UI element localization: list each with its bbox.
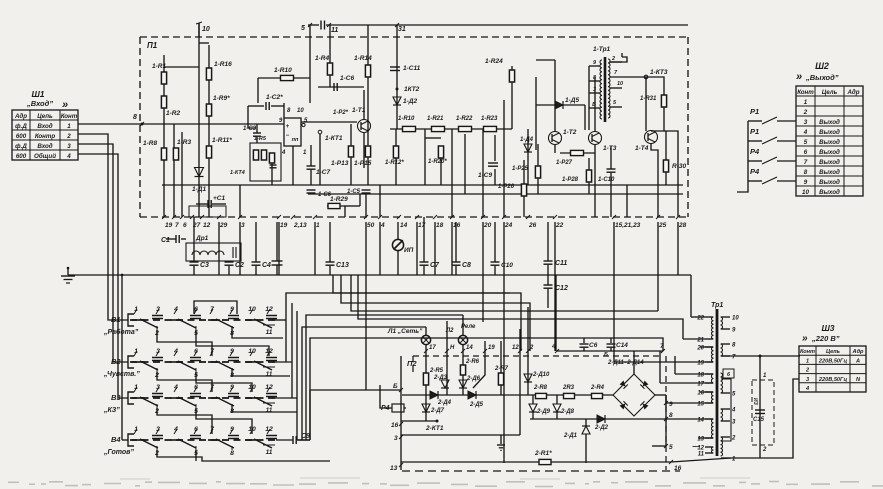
svg-text:13: 13: [697, 437, 704, 443]
svg-text:Вход: Вход: [37, 123, 52, 130]
svg-text:С14: С14: [616, 342, 628, 349]
svg-text:В2: В2: [111, 357, 121, 366]
svg-text:2: 2: [731, 436, 736, 442]
svg-text:С3: С3: [200, 262, 209, 269]
svg-text:15: 15: [697, 402, 704, 408]
svg-text:1-R21: 1-R21: [427, 116, 444, 122]
svg-text:6: 6: [183, 222, 187, 229]
svg-text:15,21,23: 15,21,23: [615, 222, 641, 229]
svg-text:2-R6: 2-R6: [465, 359, 480, 365]
svg-text:1-R23: 1-R23: [481, 116, 498, 122]
svg-text:5: 5: [301, 25, 305, 32]
svg-text:1-Д1: 1-Д1: [192, 186, 206, 193]
svg-text:„Выход”: „Выход”: [805, 73, 839, 82]
svg-text:Выход: Выход: [819, 129, 840, 136]
svg-text:10: 10: [248, 306, 256, 313]
svg-text:А: А: [855, 358, 860, 364]
svg-text:1-R24: 1-R24: [485, 58, 503, 65]
svg-text:2R3: 2R3: [562, 385, 575, 391]
svg-text:1-Р2*: 1-Р2*: [333, 110, 349, 116]
svg-text:19: 19: [488, 345, 495, 351]
svg-text:2-Д9: 2-Д9: [536, 409, 551, 415]
svg-text:14: 14: [466, 345, 473, 351]
svg-text:7: 7: [804, 159, 808, 166]
svg-text:2-Д7: 2-Д7: [430, 408, 445, 414]
svg-text:1-R20*: 1-R20*: [428, 159, 447, 165]
svg-text:2-Д3: 2-Д3: [433, 375, 448, 381]
svg-text:Ш3: Ш3: [821, 323, 834, 333]
svg-text:1-R9*: 1-R9*: [213, 95, 230, 102]
svg-text:1-Р28: 1-Р28: [562, 177, 579, 183]
svg-text:1-С6: 1-С6: [340, 75, 354, 82]
svg-text:1-Р27: 1-Р27: [556, 160, 573, 166]
svg-text:3: 3: [804, 119, 808, 126]
svg-text:4: 4: [803, 129, 808, 136]
svg-text:2-Д10: 2-Д10: [532, 372, 550, 378]
svg-text:11: 11: [331, 27, 338, 34]
svg-text:Адр: Адр: [14, 113, 27, 120]
svg-text:2-R1*: 2-R1*: [534, 450, 552, 457]
svg-text:Ш2: Ш2: [815, 61, 829, 71]
svg-text:1-С11: 1-С11: [403, 65, 421, 72]
svg-text:18: 18: [697, 373, 704, 379]
svg-text:1-КТ4: 1-КТ4: [230, 170, 245, 176]
svg-text:2-Д2: 2-Д2: [594, 425, 609, 431]
svg-text:Выход: Выход: [819, 159, 840, 166]
svg-text:1КТ2: 1КТ2: [404, 86, 420, 93]
svg-text:14: 14: [697, 418, 704, 424]
svg-text:Н: Н: [450, 345, 455, 351]
svg-text:10: 10: [248, 348, 256, 355]
svg-text:Б: Б: [393, 383, 398, 390]
svg-text:1-R8: 1-R8: [143, 140, 157, 147]
svg-text:12: 12: [265, 426, 273, 433]
svg-text:Выход: Выход: [819, 139, 840, 146]
svg-text:П2: П2: [407, 359, 417, 368]
svg-text:2: 2: [529, 345, 534, 351]
svg-text:1-С10: 1-С10: [598, 177, 615, 183]
svg-text:Р1: Р1: [750, 127, 759, 136]
svg-text:11: 11: [266, 371, 273, 378]
svg-text:1-Р13: 1-Р13: [331, 160, 349, 167]
svg-text:»: »: [62, 99, 68, 111]
svg-text:Цель: Цель: [822, 89, 838, 96]
svg-text:„Вход”: „Вход”: [26, 99, 53, 108]
svg-text:Др1: Др1: [195, 235, 209, 242]
svg-text:1-С3: 1-С3: [243, 126, 257, 132]
svg-text:1-С9: 1-С9: [478, 172, 492, 179]
svg-text:3: 3: [394, 435, 398, 442]
svg-text:1-Д4: 1-Д4: [520, 137, 534, 143]
svg-text:220В,50Гц: 220В,50Гц: [818, 377, 848, 383]
svg-text:Р1: Р1: [750, 107, 759, 116]
svg-text:Конт: Конт: [800, 349, 815, 355]
svg-text:„КЗ”: „КЗ”: [103, 407, 120, 414]
svg-text:26: 26: [528, 222, 537, 229]
svg-text:П1: П1: [147, 41, 158, 50]
svg-text:Ш1: Ш1: [31, 89, 44, 99]
svg-text:2-Д1: 2-Д1: [563, 433, 578, 439]
svg-text:8: 8: [230, 450, 234, 457]
svg-text:18: 18: [436, 222, 444, 229]
svg-text:Вход: Вход: [37, 143, 52, 150]
svg-text:Тр1: Тр1: [711, 302, 723, 309]
svg-text:10: 10: [202, 26, 210, 33]
svg-text:1-R10: 1-R10: [274, 67, 292, 74]
svg-text:1: 1: [67, 123, 71, 130]
svg-text:2-КТ1: 2-КТ1: [425, 425, 444, 432]
svg-text:С1: С1: [161, 237, 170, 244]
svg-text:Л1 „Сеть”: Л1 „Сеть”: [387, 328, 423, 335]
svg-text:10: 10: [732, 316, 739, 322]
svg-text:16: 16: [697, 391, 704, 397]
svg-text:11: 11: [266, 329, 273, 336]
svg-text:2: 2: [611, 56, 615, 62]
svg-text:В3: В3: [111, 393, 121, 402]
svg-text:2: 2: [803, 109, 808, 116]
svg-text:4: 4: [731, 408, 736, 414]
svg-text:19: 19: [165, 222, 173, 229]
svg-text:„220 В”: „220 В”: [811, 334, 840, 343]
svg-text:24: 24: [504, 222, 513, 229]
svg-text:16: 16: [674, 465, 682, 472]
svg-text:1-R31: 1-R31: [640, 96, 657, 102]
svg-text:ИП: ИП: [404, 247, 414, 254]
svg-text:С6: С6: [589, 342, 598, 349]
svg-text:Конт: Конт: [797, 89, 814, 96]
svg-text:1-R2: 1-R2: [166, 110, 180, 117]
svg-text:1-R12*: 1-R12*: [385, 160, 404, 166]
svg-text:Общий: Общий: [34, 153, 56, 160]
svg-text:20: 20: [483, 222, 492, 229]
svg-text:1-С7: 1-С7: [316, 169, 330, 176]
svg-text:10: 10: [617, 81, 623, 87]
svg-text:8: 8: [133, 114, 137, 121]
svg-text:Выход: Выход: [819, 189, 840, 196]
svg-text:13: 13: [390, 465, 398, 472]
svg-text:16: 16: [453, 222, 461, 229]
svg-text:Выход: Выход: [819, 119, 840, 126]
svg-text:2-Д8: 2-Д8: [560, 409, 575, 415]
svg-text:С12: С12: [555, 285, 568, 292]
svg-text:31: 31: [398, 26, 406, 33]
svg-text:ф.Д: ф.Д: [15, 123, 27, 130]
svg-text:3: 3: [241, 222, 245, 229]
svg-text:2: 2: [66, 133, 71, 140]
svg-text:12: 12: [265, 384, 273, 391]
svg-text:17: 17: [697, 382, 704, 388]
svg-text:»: »: [802, 333, 808, 344]
svg-text:19: 19: [280, 222, 288, 229]
svg-text:ИЗ: ИЗ: [752, 398, 758, 406]
svg-text:Цепь: Цепь: [826, 349, 840, 355]
svg-text:1-Т3: 1-Т3: [603, 145, 617, 152]
svg-text:Р4: Р4: [750, 147, 760, 156]
svg-text:В1: В1: [111, 315, 121, 324]
svg-text:1-R11*: 1-R11*: [212, 137, 232, 144]
svg-text:9: 9: [669, 401, 673, 408]
svg-text:8: 8: [804, 169, 808, 176]
svg-text:1-R29: 1-R29: [330, 196, 348, 203]
svg-text:10: 10: [297, 108, 304, 114]
svg-text:1-Р26: 1-Р26: [498, 184, 515, 190]
svg-text:1: 1: [316, 222, 320, 229]
svg-text:1-R16: 1-R16: [214, 61, 232, 68]
svg-text:„Готов”: „Готов”: [103, 449, 134, 456]
svg-text:14: 14: [400, 222, 408, 229]
svg-text:11: 11: [266, 407, 273, 414]
svg-text:В4: В4: [111, 435, 121, 444]
svg-text:2-Д5: 2-Д5: [469, 402, 484, 408]
svg-text:27: 27: [192, 222, 201, 229]
svg-text:11: 11: [698, 452, 705, 458]
svg-text:50: 50: [367, 222, 375, 229]
svg-text:4: 4: [380, 222, 385, 229]
svg-text:5: 5: [669, 444, 673, 451]
svg-text:4: 4: [281, 150, 286, 156]
svg-text:С9: С9: [301, 433, 310, 440]
svg-text:29: 29: [219, 222, 228, 229]
svg-text:1-Т4: 1-Т4: [635, 145, 649, 152]
svg-text:600: 600: [16, 153, 27, 160]
svg-text:1-Тр1: 1-Тр1: [593, 46, 611, 53]
svg-text:С8: С8: [462, 262, 471, 269]
svg-text:„Работа”: „Работа”: [103, 328, 139, 336]
svg-text:+: +: [286, 124, 290, 130]
svg-text:1-Р15: 1-Р15: [354, 160, 372, 167]
svg-text:С10: С10: [501, 262, 513, 269]
svg-text:1-Р25: 1-Р25: [512, 166, 529, 172]
svg-text:2-R8: 2-R8: [533, 385, 548, 391]
svg-text:2: 2: [762, 447, 767, 453]
svg-text:R-30: R-30: [672, 163, 686, 170]
svg-text:7: 7: [175, 222, 179, 229]
svg-text:9: 9: [804, 179, 808, 186]
svg-text:19: 19: [697, 361, 704, 367]
svg-text:С11: С11: [555, 260, 567, 267]
svg-text:1: 1: [804, 99, 808, 106]
svg-text:7: 7: [660, 343, 664, 350]
svg-text:2-Д11–2-Д14: 2-Д11–2-Д14: [607, 360, 644, 366]
svg-text:2-R4: 2-R4: [590, 385, 605, 391]
svg-text:1: 1: [806, 358, 809, 364]
svg-text:1-Т2: 1-Т2: [563, 129, 577, 136]
svg-text:16: 16: [391, 422, 399, 429]
svg-text:1-R3: 1-R3: [177, 139, 191, 146]
svg-text:Адр: Адр: [846, 89, 859, 96]
svg-text:»: »: [796, 71, 802, 83]
svg-text:2,13: 2,13: [293, 222, 307, 229]
svg-text:11: 11: [266, 449, 273, 456]
svg-text:28: 28: [678, 222, 687, 229]
svg-text:−: −: [692, 442, 697, 451]
svg-text:ф.Д: ф.Д: [15, 143, 27, 150]
svg-text:+С1: +С1: [213, 195, 225, 202]
svg-text:С4: С4: [262, 262, 271, 269]
svg-text:С13: С13: [336, 262, 349, 269]
svg-text:3: 3: [67, 143, 71, 150]
svg-text:Р4: Р4: [750, 167, 760, 176]
svg-text:2-Д4: 2-Д4: [437, 400, 452, 406]
svg-text:Адр: Адр: [852, 349, 864, 355]
svg-text:5: 5: [804, 139, 808, 146]
svg-text:1-Д2: 1-Д2: [403, 98, 417, 105]
svg-text:6: 6: [804, 149, 808, 156]
svg-text:8: 8: [669, 412, 673, 419]
svg-text:1-Д5: 1-Д5: [565, 97, 579, 104]
svg-text:1-R4: 1-R4: [315, 55, 329, 62]
svg-text:Выход: Выход: [819, 149, 840, 156]
svg-text:1-R14: 1-R14: [354, 55, 372, 62]
svg-text:22: 22: [555, 222, 564, 229]
svg-text:12: 12: [512, 345, 519, 351]
svg-text:2-R5: 2-R5: [429, 368, 444, 374]
svg-text:17: 17: [429, 345, 436, 351]
svg-text:Конт: Конт: [61, 113, 78, 120]
svg-text:Б: Б: [604, 352, 608, 358]
svg-text:С15: С15: [753, 417, 765, 423]
svg-text:Выход: Выход: [819, 169, 840, 176]
svg-text:1-КТ1: 1-КТ1: [325, 135, 343, 142]
svg-text:пп: пп: [292, 137, 299, 143]
svg-text:2-R7: 2-R7: [494, 366, 509, 372]
svg-text:20: 20: [696, 346, 704, 352]
svg-text:1-R22: 1-R22: [456, 116, 473, 122]
svg-text:12: 12: [203, 222, 211, 229]
svg-text:−: −: [286, 133, 290, 139]
svg-text:1-R10: 1-R10: [398, 116, 415, 122]
svg-text:Контр: Контр: [35, 133, 56, 140]
svg-text:Выход: Выход: [819, 179, 840, 186]
svg-text:600: 600: [16, 133, 27, 140]
svg-text:220В,50Гц: 220В,50Гц: [818, 358, 848, 364]
svg-text:25: 25: [658, 222, 667, 229]
svg-text:„Чувств.”: „Чувств.”: [103, 371, 140, 378]
svg-text:4: 4: [66, 153, 71, 160]
svg-text:Цепь: Цепь: [37, 113, 53, 120]
svg-text:1-С2*: 1-С2*: [266, 94, 283, 101]
svg-text:10: 10: [802, 189, 809, 196]
svg-text:1-КТ3: 1-КТ3: [650, 69, 668, 76]
svg-text:12: 12: [265, 306, 273, 313]
svg-text:4: 4: [551, 343, 556, 350]
